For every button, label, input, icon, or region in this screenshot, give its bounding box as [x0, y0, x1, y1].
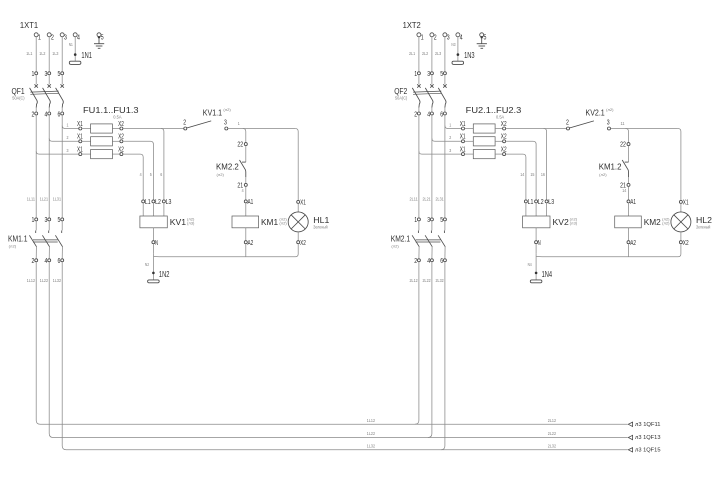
- svg-text:5: 5: [440, 215, 443, 224]
- svg-text:(л3): (л3): [570, 222, 577, 226]
- svg-text:4: 4: [45, 256, 48, 265]
- node 1N2 junction: [145, 254, 155, 280]
- svg-text:(л2): (л2): [662, 222, 669, 226]
- svg-text:3: 3: [45, 215, 48, 224]
- svg-text:L1: L1: [145, 197, 151, 206]
- relay contact KV1.1 (NO): [183, 108, 231, 131]
- svg-text:6: 6: [58, 256, 61, 265]
- relay coil KV2: [523, 197, 578, 247]
- wire phase 2 2L21 run: [431, 115, 433, 218]
- svg-text:KV1.1: KV1.1: [203, 108, 222, 118]
- neutral bar 1N1: [69, 50, 92, 64]
- wire fuse1 output to relay L3 and contact: [506, 129, 567, 200]
- svg-text:X2: X2: [501, 132, 507, 141]
- relay coil KV1: [140, 197, 195, 247]
- svg-text:1L31: 1L31: [53, 197, 62, 202]
- fuse FU2.2: [460, 132, 507, 146]
- svg-text:L2: L2: [155, 197, 161, 206]
- svg-text:1XT1: 1XT1: [20, 20, 38, 30]
- wire rail 1L12/2L12: [36, 262, 627, 424]
- wire fuse3 output to relay L1: [506, 154, 526, 200]
- wire tap to fuse 2: [49, 135, 79, 141]
- svg-text:2L32: 2L32: [436, 278, 445, 283]
- lamp HL1: [288, 197, 329, 246]
- wire branch down to KM NC contact: [626, 129, 629, 143]
- svg-text:1L2: 1L2: [39, 51, 45, 56]
- svg-text:4: 4: [77, 33, 80, 42]
- svg-text:X2: X2: [118, 145, 124, 154]
- sheet reference arrow л3 1QF15: [628, 447, 660, 453]
- svg-text:5: 5: [150, 172, 152, 177]
- svg-text:6: 6: [440, 109, 443, 118]
- svg-text:2: 2: [414, 109, 417, 118]
- terminal 1XT1:2: [47, 33, 54, 42]
- svg-text:A2: A2: [248, 238, 254, 247]
- svg-text:X2: X2: [118, 132, 124, 141]
- neutral bar 1N4: [530, 269, 552, 283]
- svg-text:4: 4: [427, 256, 430, 265]
- wire tap to fuse 3: [419, 148, 462, 154]
- svg-text:2L1: 2L1: [409, 51, 415, 56]
- wire neutral rail: [153, 244, 298, 257]
- ground: [477, 44, 487, 49]
- svg-text:A1: A1: [248, 197, 254, 206]
- svg-text:6: 6: [58, 109, 61, 118]
- svg-text:4: 4: [460, 33, 463, 42]
- circuit breaker QF1: [12, 69, 64, 118]
- svg-text:22: 22: [237, 140, 243, 149]
- wire phase 2 1L21 run: [48, 115, 50, 218]
- svg-text:X1: X1: [77, 119, 83, 128]
- svg-text:KM1: KM1: [261, 217, 278, 227]
- svg-text:2: 2: [67, 135, 69, 140]
- svg-text:3: 3: [64, 33, 67, 42]
- wire N to 1N1: [69, 37, 75, 61]
- wire tap to fuse 1: [62, 122, 79, 128]
- fuse FU1.3: [77, 145, 124, 159]
- svg-text:1: 1: [421, 33, 424, 42]
- terminal block 1XT2: [403, 20, 421, 30]
- svg-text:1L32: 1L32: [367, 443, 376, 448]
- node 1N4 junction: [528, 254, 538, 280]
- svg-text:2: 2: [449, 135, 451, 140]
- wire join from second contactor to rail 2L32: [441, 262, 445, 450]
- svg-text:1L12: 1L12: [367, 418, 376, 423]
- terminal 1XT2:2: [430, 33, 437, 42]
- wire tap to fuse 1: [445, 122, 462, 128]
- svg-text:(л2): (л2): [599, 173, 606, 177]
- svg-text:X1: X1: [460, 145, 466, 154]
- svg-text:X1: X1: [683, 197, 689, 206]
- wire phase 3 1L31 run: [61, 115, 63, 218]
- svg-text:1L11: 1L11: [27, 197, 36, 202]
- wire fuse3 output to relay L1: [123, 154, 143, 200]
- wire branch down to KM NC contact: [243, 129, 246, 143]
- svg-text:X2: X2: [501, 145, 507, 154]
- wire 21 to coil A1: [245, 186, 247, 200]
- svg-text:X1: X1: [460, 119, 466, 128]
- svg-text:L2: L2: [538, 197, 544, 206]
- svg-text:л3 1QF15: л3 1QF15: [635, 447, 661, 453]
- svg-text:2L21: 2L21: [423, 197, 432, 202]
- svg-text:4: 4: [140, 172, 142, 177]
- svg-text:X2: X2: [501, 119, 507, 128]
- svg-text:2L12: 2L12: [410, 278, 419, 283]
- svg-text:2: 2: [434, 33, 437, 42]
- svg-text:(л2): (л2): [9, 245, 16, 249]
- svg-text:1: 1: [67, 122, 69, 127]
- svg-text:6: 6: [440, 256, 443, 265]
- svg-text:1L1: 1L1: [26, 51, 32, 56]
- svg-text:1N1: 1N1: [81, 50, 92, 60]
- fuse group FU2.1..FU2.3 label: [466, 105, 522, 119]
- svg-text:X2: X2: [683, 238, 689, 247]
- wire rail 1L22/2L22: [49, 262, 627, 438]
- fuse FU2.1: [460, 119, 507, 133]
- wire 2L2: [422, 37, 432, 72]
- wire neutral rail: [536, 244, 681, 257]
- svg-text:(л2): (л2): [223, 108, 230, 112]
- svg-text:KM1.1: KM1.1: [8, 233, 28, 243]
- svg-text:16: 16: [541, 172, 545, 177]
- svg-text:1N4: 1N4: [542, 269, 553, 279]
- node 1N1 junction: [74, 53, 77, 56]
- wire phase 1 1L11 run: [35, 115, 37, 218]
- svg-text:KM2: KM2: [644, 217, 661, 227]
- svg-text:X1: X1: [460, 132, 466, 141]
- svg-text:1L32: 1L32: [53, 278, 62, 283]
- contactor auxiliary contact KM1.2 (NC): [599, 140, 630, 193]
- svg-text:1L22: 1L22: [367, 431, 376, 436]
- svg-text:14: 14: [520, 172, 524, 177]
- svg-text:1L21: 1L21: [40, 197, 49, 202]
- svg-text:Зеленый: Зеленый: [696, 224, 711, 230]
- terminal 1XT1:5: [97, 33, 104, 44]
- svg-text:1L12: 1L12: [27, 278, 36, 283]
- svg-text:50A(C): 50A(C): [12, 96, 25, 101]
- svg-text:L3: L3: [166, 197, 172, 206]
- svg-text:N: N: [155, 238, 158, 247]
- wire contact to lamp branch: [611, 121, 681, 200]
- svg-text:3: 3: [67, 148, 69, 153]
- svg-text:(л2): (л2): [606, 108, 613, 112]
- svg-text:N2: N2: [145, 262, 149, 267]
- svg-text:15: 15: [530, 172, 534, 177]
- neutral bar 1N2: [148, 269, 170, 283]
- svg-text:L3: L3: [548, 197, 554, 206]
- svg-text:5: 5: [101, 33, 104, 42]
- svg-text:A2: A2: [630, 238, 636, 247]
- svg-text:(л2): (л2): [217, 173, 224, 177]
- svg-text:2: 2: [183, 117, 186, 126]
- svg-text:3: 3: [607, 117, 610, 126]
- svg-text:11: 11: [621, 121, 625, 126]
- sheet reference arrow л3 1QF13: [628, 435, 660, 441]
- svg-text:2L3: 2L3: [435, 51, 441, 56]
- contactor coil KM1: [232, 197, 287, 247]
- svg-text:1: 1: [414, 215, 417, 224]
- svg-text:N3: N3: [451, 42, 455, 47]
- terminal 1XT2:4: [456, 33, 463, 42]
- contactor main contacts KM2.1: [391, 197, 447, 283]
- svg-text:1L3: 1L3: [52, 51, 58, 56]
- svg-text:3: 3: [427, 215, 430, 224]
- svg-text:1: 1: [38, 33, 41, 42]
- contactor coil KM2: [615, 197, 670, 247]
- fuse FU1.1: [77, 119, 124, 133]
- svg-text:1XT2: 1XT2: [403, 20, 421, 30]
- svg-text:(л2): (л2): [391, 245, 398, 249]
- svg-text:2: 2: [414, 256, 417, 265]
- svg-text:HL2: HL2: [696, 215, 712, 225]
- terminal 1XT2:3: [443, 33, 450, 42]
- svg-text:X2: X2: [300, 238, 306, 247]
- terminal 1XT1:3: [60, 33, 67, 42]
- lamp HL2: [671, 197, 712, 246]
- contactor auxiliary contact KM2.2 (NC): [216, 140, 247, 193]
- svg-text:3: 3: [449, 148, 451, 153]
- svg-text:1: 1: [414, 69, 417, 78]
- svg-text:1: 1: [32, 215, 35, 224]
- svg-text:3: 3: [447, 33, 450, 42]
- wire fuse2 output to relay L2: [123, 141, 153, 200]
- wire 1L3: [52, 37, 62, 72]
- svg-text:л3 1QF11: л3 1QF11: [635, 422, 661, 428]
- svg-text:N: N: [538, 238, 541, 247]
- circuit breaker QF2: [394, 69, 446, 118]
- svg-text:50A(C): 50A(C): [395, 96, 408, 101]
- svg-text:2L32: 2L32: [548, 443, 557, 448]
- svg-text:2: 2: [32, 109, 35, 118]
- svg-text:FU2.1..FU2.3: FU2.1..FU2.3: [466, 105, 522, 115]
- terminal block 1XT1: [20, 20, 38, 30]
- svg-text:22: 22: [620, 140, 626, 149]
- wire fuse1 output to relay L3 and contact: [123, 129, 184, 200]
- svg-text:3: 3: [224, 117, 227, 126]
- relay contact KV2.1 (NO): [566, 108, 614, 131]
- svg-text:X1: X1: [77, 145, 83, 154]
- svg-text:2L31: 2L31: [436, 197, 445, 202]
- wire tap to fuse 3: [36, 148, 79, 154]
- svg-text:X2: X2: [118, 119, 124, 128]
- svg-text:1: 1: [449, 122, 451, 127]
- svg-text:L1: L1: [528, 197, 534, 206]
- svg-text:5: 5: [58, 215, 61, 224]
- svg-text:N4: N4: [528, 262, 532, 267]
- svg-text:KV1: KV1: [170, 217, 187, 227]
- svg-text:5: 5: [440, 69, 443, 78]
- svg-text:KM2.2: KM2.2: [216, 161, 239, 171]
- svg-text:2L11: 2L11: [410, 197, 419, 202]
- svg-text:(л2): (л2): [279, 222, 286, 226]
- neutral bar 1N3: [452, 50, 475, 64]
- svg-text:4: 4: [427, 109, 430, 118]
- svg-text:4: 4: [242, 188, 244, 193]
- wire 2L1: [409, 37, 419, 72]
- terminal 1XT1:1: [34, 33, 41, 42]
- contactor main contacts KM1.1: [8, 197, 64, 283]
- svg-text:KV2.1: KV2.1: [586, 108, 605, 118]
- svg-text:HL1: HL1: [313, 215, 329, 225]
- node 1N3 junction: [457, 53, 460, 56]
- svg-text:6: 6: [160, 172, 162, 177]
- fuse FU2.3: [460, 145, 507, 159]
- svg-text:2L22: 2L22: [423, 278, 432, 283]
- svg-text:X1: X1: [77, 132, 83, 141]
- svg-text:KM2.1: KM2.1: [391, 233, 411, 243]
- wire join from second contactor to rail 2L22: [428, 262, 432, 438]
- wire phase 1 2L11 run: [418, 115, 420, 218]
- svg-text:2L12: 2L12: [548, 418, 557, 423]
- wire tap to fuse 2: [432, 135, 462, 141]
- svg-text:1N3: 1N3: [464, 50, 475, 60]
- svg-text:1N2: 1N2: [159, 269, 170, 279]
- svg-text:14: 14: [622, 188, 626, 193]
- fuse FU1.2: [77, 132, 124, 146]
- wire 2L3: [435, 37, 445, 72]
- svg-text:5: 5: [58, 69, 61, 78]
- svg-text:1: 1: [238, 121, 240, 126]
- svg-text:л3 1QF13: л3 1QF13: [635, 435, 661, 441]
- wire fuse2 output to relay L2: [506, 141, 536, 200]
- svg-text:1L22: 1L22: [40, 278, 49, 283]
- svg-text:5: 5: [484, 33, 487, 42]
- svg-text:1: 1: [32, 69, 35, 78]
- wire 1L2: [39, 37, 49, 72]
- svg-text:KM1.2: KM1.2: [599, 161, 622, 171]
- svg-text:4: 4: [45, 109, 48, 118]
- svg-text:A1: A1: [630, 197, 636, 206]
- svg-text:(л3): (л3): [187, 222, 194, 226]
- wire 1L1: [26, 37, 36, 72]
- svg-text:2: 2: [32, 256, 35, 265]
- wire join from second contactor to rail 2L12: [415, 262, 419, 424]
- wire contact to lamp branch: [228, 121, 298, 200]
- terminal 1XT2:1: [417, 33, 424, 42]
- sheet reference arrow л3 1QF11: [628, 422, 660, 428]
- wire N to 1N3: [451, 37, 458, 61]
- svg-text:2L2: 2L2: [422, 51, 428, 56]
- svg-text:Зеленый: Зеленый: [313, 224, 328, 230]
- svg-text:FU1.1..FU1.3: FU1.1..FU1.3: [83, 105, 139, 115]
- wire 21 to coil A1: [628, 186, 630, 200]
- svg-text:2: 2: [51, 33, 54, 42]
- svg-text:2: 2: [566, 117, 569, 126]
- svg-text:2L22: 2L22: [548, 431, 557, 436]
- svg-text:KV2: KV2: [553, 217, 570, 227]
- svg-text:3: 3: [45, 69, 48, 78]
- terminal 1XT1:4: [73, 33, 80, 42]
- fuse group FU1.1..FU1.3 label: [83, 105, 139, 119]
- svg-text:X1: X1: [300, 197, 306, 206]
- ground: [94, 44, 104, 49]
- svg-text:3: 3: [427, 69, 430, 78]
- terminal 1XT2:5: [480, 33, 487, 44]
- wire phase 3 2L31 run: [444, 115, 446, 218]
- wire rail 1L32/2L32: [62, 262, 627, 450]
- svg-text:N1: N1: [69, 42, 73, 47]
